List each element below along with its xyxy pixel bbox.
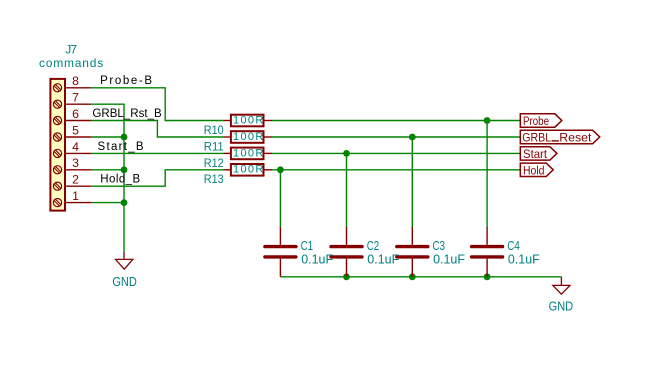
J7 pin 6: [53, 116, 91, 124]
svg-text:Hold_B: Hold_B: [100, 174, 140, 186]
svg-text:Start: Start: [523, 147, 548, 161]
svg-text:GND: GND: [549, 299, 574, 314]
wire C1 top drop: [279, 170, 281, 227]
resistor R13: [223, 164, 272, 176]
capacitor C3: [397, 227, 428, 277]
svg-text:C2: C2: [367, 239, 380, 253]
svg-text:C1: C1: [301, 239, 314, 253]
wire pin2 to R13: [91, 170, 223, 186]
svg-text:R10: R10: [204, 123, 224, 137]
svg-text:Hold: Hold: [523, 163, 545, 177]
svg-text:J7: J7: [65, 42, 77, 56]
J7 pin 1: [53, 199, 91, 207]
svg-text:Start_B: Start_B: [98, 141, 144, 153]
svg-text:2: 2: [72, 173, 79, 187]
svg-text:7: 7: [72, 91, 79, 105]
J7 pin 2: [53, 182, 91, 190]
global label GRBL_Reset outline: [520, 130, 599, 143]
resistor R12: [223, 148, 272, 160]
wire R10 to Probe label: [272, 120, 520, 122]
svg-text:3: 3: [72, 156, 79, 170]
wire pin4 to R12: [91, 152, 223, 154]
junction pin1 bus: [121, 199, 128, 206]
wire R12 to Start label: [272, 152, 520, 154]
svg-text:0.1uF: 0.1uF: [367, 252, 399, 266]
capacitor C1: [265, 227, 296, 277]
wire ground rail: [280, 276, 561, 278]
junction pin5 bus: [121, 134, 128, 141]
wire C3 top drop: [411, 137, 413, 227]
wire C2 top drop: [346, 153, 348, 227]
svg-text:4: 4: [72, 140, 79, 154]
power symbol GND left: [116, 252, 133, 269]
svg-text:100R: 100R: [233, 147, 263, 159]
svg-text:commands: commands: [39, 56, 103, 70]
wire R13 to Hold label: [272, 169, 520, 171]
svg-text:100R: 100R: [233, 164, 263, 176]
resistor R11: [223, 131, 272, 143]
junction pin3 bus: [121, 166, 128, 173]
junction C1 tap: [277, 166, 284, 173]
wire pin5 to bus: [91, 136, 124, 138]
svg-text:Probe: Probe: [523, 114, 549, 128]
svg-text:0.1uF: 0.1uF: [508, 252, 540, 266]
power symbol GND right: [553, 277, 570, 294]
svg-text:0.1uF: 0.1uF: [301, 252, 333, 266]
wire pin7 ground bus: [91, 104, 124, 252]
junction C4 rail: [484, 273, 491, 280]
svg-text:100R: 100R: [233, 114, 263, 126]
svg-text:R11: R11: [204, 139, 224, 153]
wire pin6 to R11: [91, 121, 223, 138]
junction C2 tap: [343, 150, 350, 157]
svg-text:R12: R12: [204, 156, 224, 170]
global label Probe outline: [520, 114, 562, 127]
wire R11 to GRBL_Reset label: [272, 136, 520, 138]
J7 pin 4: [53, 149, 91, 157]
resistor R10: [223, 115, 272, 127]
svg-text:GRBL: GRBL: [522, 131, 551, 145]
wire pin3 to bus: [91, 169, 124, 171]
connector J7 body: [50, 79, 65, 211]
svg-text:Probe-B: Probe-B: [100, 75, 152, 87]
capacitor C2: [331, 227, 362, 277]
J7 pin 8: [53, 84, 91, 92]
svg-text:8: 8: [72, 74, 79, 88]
wire pin1 to bus: [91, 202, 124, 204]
J7 pin 7: [53, 100, 91, 108]
svg-text:C4: C4: [507, 239, 520, 253]
junction C3 rail: [409, 273, 416, 280]
junction C4 tap: [484, 117, 491, 124]
svg-text:5: 5: [72, 123, 79, 137]
wire pin8 to R10: [91, 88, 223, 121]
capacitor C4: [472, 227, 503, 277]
svg-text:100R: 100R: [233, 131, 263, 143]
svg-text:6: 6: [72, 107, 79, 121]
wire C4 top drop: [486, 121, 488, 228]
J7 pin 3: [53, 166, 91, 174]
global label GRBL_Reset text: [522, 131, 592, 145]
J7 pin 5: [53, 133, 91, 141]
svg-text:GRBL_Rst_B: GRBL_Rst_B: [92, 108, 162, 120]
svg-text:0.1uF: 0.1uF: [433, 252, 465, 266]
svg-text:GND: GND: [112, 274, 137, 289]
global label Hold outline: [520, 163, 553, 176]
svg-text:C3: C3: [433, 239, 446, 253]
svg-text:1: 1: [72, 189, 79, 203]
global label Start outline: [520, 147, 557, 160]
svg-text:R13: R13: [204, 172, 224, 186]
svg-text:Reset: Reset: [559, 131, 592, 145]
junction C2 rail: [343, 273, 350, 280]
junction C3 tap: [409, 134, 416, 141]
